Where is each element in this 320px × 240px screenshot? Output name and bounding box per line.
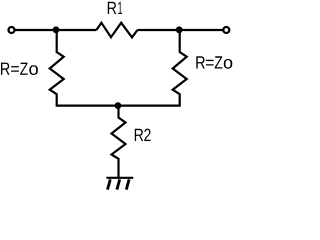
ground bbox=[106, 178, 133, 190]
label R1 bbox=[108, 2, 122, 14]
terminal right bbox=[223, 27, 229, 33]
junction dot bottom bbox=[115, 102, 122, 109]
resistor R2 bbox=[112, 106, 126, 178]
label R2 bbox=[135, 129, 151, 141]
resistor R1 bbox=[96, 23, 137, 38]
junction dot right bbox=[176, 26, 183, 33]
resistor left R=Zo bbox=[50, 30, 64, 106]
label R=Zo left bbox=[1, 63, 38, 75]
wire bottom bbox=[56, 104, 181, 106]
resistor right R=Zo bbox=[173, 30, 187, 106]
label R=Zo right bbox=[196, 56, 232, 68]
wire top-right segment bbox=[137, 29, 222, 31]
junction dot left bbox=[53, 26, 60, 33]
terminal left bbox=[9, 27, 15, 33]
wire top-left segment bbox=[15, 29, 97, 31]
